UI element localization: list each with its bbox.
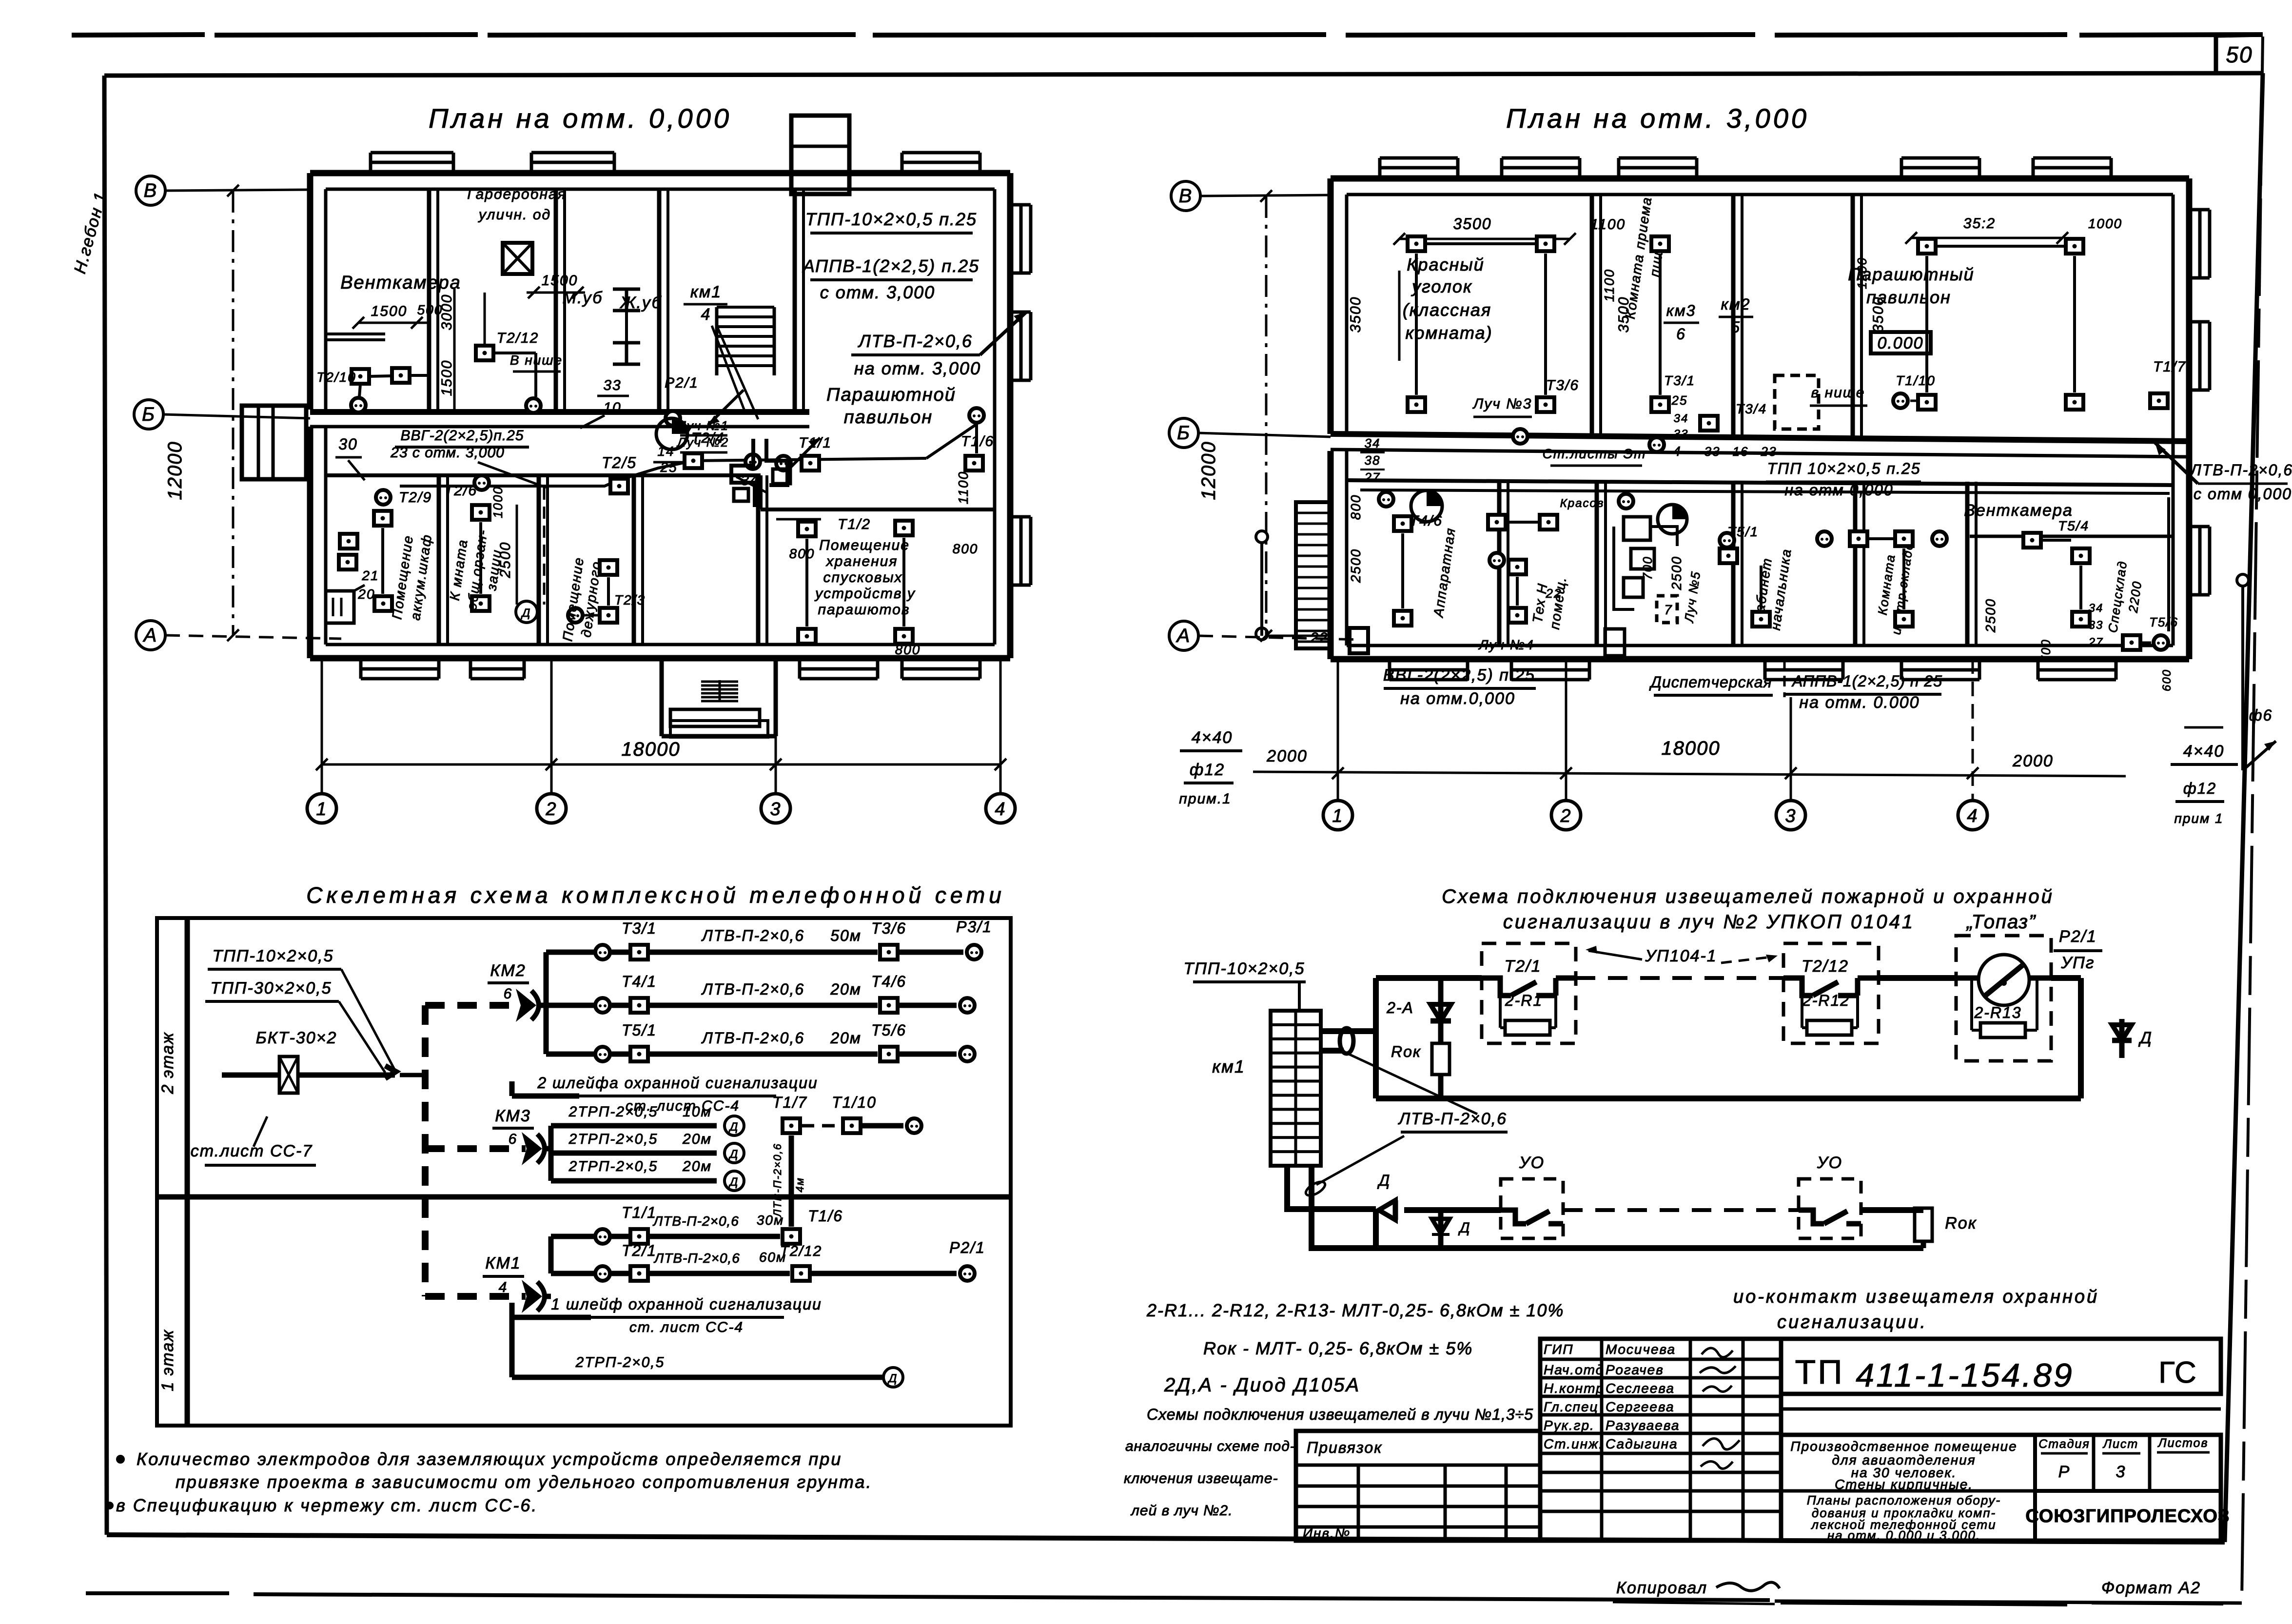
svg-text:38: 38 — [1365, 453, 1381, 468]
svg-text:1100: 1100 — [1590, 216, 1626, 233]
svg-text:хранения: хранения — [825, 553, 898, 569]
svg-text:12000: 12000 — [164, 441, 186, 500]
svg-text:Рогачев: Рогачев — [1606, 1362, 1664, 1377]
svg-text:2 этаж: 2 этаж — [158, 1032, 177, 1094]
svg-text:Схема подключения извещателей: Схема подключения извещателей пожарной и… — [1442, 886, 2054, 907]
svg-text:Красов: Красов — [1560, 497, 1605, 510]
svg-text:Т1/2: Т1/2 — [838, 516, 871, 532]
svg-text:2-R12: 2-R12 — [1802, 992, 1850, 1009]
svg-text:27: 27 — [1364, 470, 1381, 485]
svg-text:План на отм. 0,000: План на отм. 0,000 — [429, 103, 732, 134]
svg-text:Т5/1: Т5/1 — [622, 1021, 657, 1039]
svg-text:сигнализации.: сигнализации. — [1777, 1312, 1927, 1332]
svg-text:4×40: 4×40 — [2183, 742, 2225, 761]
svg-text:1200: 1200 — [1855, 257, 1869, 289]
svg-text:Т2/9: Т2/9 — [399, 489, 432, 506]
svg-text:50: 50 — [2226, 42, 2253, 67]
svg-text:2ТРП-2×0,5: 2ТРП-2×0,5 — [568, 1131, 658, 1147]
svg-text:А: А — [143, 625, 158, 646]
svg-text:Сеслеева: Сеслеева — [1606, 1381, 1675, 1396]
svg-text:Парашютной: Парашютной — [826, 385, 956, 405]
svg-text:Т1/1: Т1/1 — [622, 1204, 657, 1221]
svg-text:ТПП-10×2×0,5 п.25: ТПП-10×2×0,5 п.25 — [805, 209, 977, 229]
svg-text:Д: Д — [728, 1175, 739, 1189]
svg-text:аналогичны схеме под-: аналогичны схеме под- — [1125, 1438, 1295, 1454]
svg-text:22: 22 — [1546, 586, 1562, 601]
svg-text:Ст.инж.: Ст.инж. — [1544, 1436, 1604, 1451]
svg-text:Т2/12: Т2/12 — [497, 330, 539, 346]
svg-text:КМ1: КМ1 — [485, 1254, 521, 1272]
svg-text:Д: Д — [728, 1120, 739, 1134]
svg-text:Т2/12: Т2/12 — [780, 1243, 823, 1259]
svg-text:Листов: Листов — [2157, 1436, 2208, 1450]
svg-text:18000: 18000 — [1661, 738, 1720, 759]
svg-text:Д: Д — [521, 607, 531, 620]
svg-text:14: 14 — [657, 444, 674, 459]
svg-text:27: 27 — [2088, 636, 2104, 649]
svg-text:2000: 2000 — [2012, 752, 2054, 770]
svg-text:3500: 3500 — [1453, 215, 1491, 233]
svg-text:Б: Б — [142, 404, 156, 425]
svg-text:3500: 3500 — [1870, 296, 1886, 333]
svg-text:800: 800 — [895, 642, 921, 657]
svg-text:7: 7 — [1664, 602, 1673, 617]
svg-text:2ТРП-2×0,5: 2ТРП-2×0,5 — [575, 1354, 665, 1370]
svg-text:Т1/6: Т1/6 — [808, 1207, 843, 1225]
svg-text:ТПП-30×2×0,5: ТПП-30×2×0,5 — [210, 979, 332, 998]
svg-text:ВВГ-2(2×2,5)п.25: ВВГ-2(2×2,5)п.25 — [400, 428, 524, 444]
svg-text:3: 3 — [1785, 806, 1796, 826]
svg-text:Н.контр: Н.контр — [1544, 1381, 1605, 1396]
svg-text:Диспетчерская: Диспетчерская — [1649, 673, 1772, 691]
svg-text:Т2/12: Т2/12 — [1802, 957, 1849, 976]
svg-text:1500: 1500 — [439, 360, 455, 396]
svg-text:20м: 20м — [682, 1131, 712, 1147]
svg-text:3: 3 — [2116, 1463, 2126, 1481]
svg-text:Разуваева: Разуваева — [1606, 1418, 1680, 1433]
svg-text:4: 4 — [995, 799, 1006, 820]
svg-text:Т2/4: Т2/4 — [691, 430, 725, 446]
svg-text:2ТРП-2×0,5: 2ТРП-2×0,5 — [568, 1104, 658, 1120]
svg-text:АППВ-1(2×2,5) п 25: АППВ-1(2×2,5) п 25 — [1791, 672, 1942, 690]
svg-text:КМ3: КМ3 — [495, 1107, 530, 1125]
svg-text:ЛТВ-П-2×0,6: ЛТВ-П-2×0,6 — [771, 1143, 784, 1217]
svg-text:3500: 3500 — [1348, 296, 1364, 333]
svg-text:ключения извещате-: ключения извещате- — [1124, 1470, 1278, 1487]
svg-text:33: 33 — [1704, 444, 1721, 459]
svg-text:30: 30 — [338, 435, 358, 453]
svg-text:на отм. 3,000: на отм. 3,000 — [854, 358, 981, 378]
svg-text:23: 23 — [1761, 444, 1777, 459]
svg-text:4: 4 — [1673, 444, 1682, 459]
svg-text:34: 34 — [1365, 436, 1381, 450]
svg-text:на отм 0,000: на отм 0,000 — [1784, 481, 1893, 499]
svg-text:ТП: ТП — [1795, 1353, 1844, 1391]
svg-text:Т1/10: Т1/10 — [1896, 373, 1936, 388]
svg-text:ЛТВ-П-2×0,6: ЛТВ-П-2×0,6 — [2190, 461, 2292, 479]
svg-text:33: 33 — [1674, 428, 1689, 441]
svg-text:ВВГ-2(2×2,5) п.25: ВВГ-2(2×2,5) п.25 — [1383, 666, 1535, 685]
svg-text:прим.1: прим.1 — [1179, 791, 1231, 807]
svg-text:км1: км1 — [690, 283, 722, 301]
svg-text:Ст.листы Эт: Ст.листы Эт — [1543, 446, 1646, 461]
svg-text:УПг: УПг — [2060, 954, 2095, 972]
svg-text:1: 1 — [316, 799, 327, 820]
svg-text:2500: 2500 — [1348, 548, 1363, 583]
svg-text:50м: 50м — [830, 927, 862, 944]
svg-text:2Д,А - Диод Д105А: 2Д,А - Диод Д105А — [1164, 1374, 1360, 1396]
svg-text:Р3/1: Р3/1 — [956, 918, 992, 936]
svg-text:2ТРП-2×0,5: 2ТРП-2×0,5 — [568, 1158, 658, 1174]
svg-text:Луч №3: Луч №3 — [1472, 396, 1532, 412]
svg-text:СОЮЗГИПРОЛЕСХОЗ: СОЮЗГИПРОЛЕСХОЗ — [2025, 1506, 2230, 1526]
svg-text:35:2: 35:2 — [1963, 215, 1996, 232]
svg-text:на отм. 0,000 и 3,000.: на отм. 0,000 и 3,000. — [1827, 1528, 1980, 1543]
svg-text:Д: Д — [1377, 1172, 1391, 1189]
svg-text:2500: 2500 — [1983, 598, 1998, 633]
svg-text:ф6: ф6 — [2249, 706, 2273, 724]
svg-text:0.000: 0.000 — [1877, 334, 1923, 352]
svg-text:М.уб: М.уб — [563, 289, 603, 307]
svg-text:ЛТВ-П-2×0,6: ЛТВ-П-2×0,6 — [653, 1251, 740, 1266]
svg-text:Рук.гр.: Рук.гр. — [1544, 1418, 1595, 1433]
svg-text:20м: 20м — [682, 1158, 712, 1174]
svg-text:23 с отм. 3,000: 23 с отм. 3,000 — [390, 445, 505, 461]
svg-text:ЛТВ-П-2×0,6: ЛТВ-П-2×0,6 — [701, 1029, 804, 1047]
svg-text:УО: УО — [1817, 1154, 1842, 1172]
svg-text:В: В — [1179, 185, 1193, 207]
svg-text:33: 33 — [603, 377, 621, 393]
svg-text:Гл.спец: Гл.спец — [1544, 1399, 1599, 1414]
svg-text:Копировал: Копировал — [1616, 1579, 1707, 1597]
svg-text:Т1/7: Т1/7 — [2153, 359, 2186, 375]
svg-text:в Спецификацию к чертежу ст: в Спецификацию к чертежу ст. лист СС-6. — [116, 1495, 538, 1515]
svg-text:А: А — [1176, 625, 1191, 646]
svg-text:Количество электродов для з: Количество электродов для заземляющих ус… — [137, 1449, 842, 1469]
svg-text:Т5/6: Т5/6 — [2149, 615, 2178, 629]
svg-text:с отм 0,000: с отм 0,000 — [2194, 485, 2292, 503]
svg-text:3000: 3000 — [439, 294, 455, 331]
svg-text:„Топаз”: „Топаз” — [1966, 911, 2037, 933]
svg-text:2500: 2500 — [1669, 556, 1684, 590]
svg-text:21: 21 — [361, 568, 379, 583]
svg-text:1000: 1000 — [2088, 216, 2122, 231]
svg-text:3: 3 — [770, 799, 781, 820]
svg-text:уголок: уголок — [1410, 276, 1472, 296]
svg-text:привязке проекта в зависимос: привязке проекта в зависимости от удельн… — [176, 1472, 872, 1492]
svg-text:парашютов: парашютов — [818, 602, 910, 618]
svg-text:Инв.№: Инв.№ — [1303, 1526, 1351, 1541]
svg-text:Rок: Rок — [1945, 1214, 1977, 1233]
svg-text:30м: 30м — [757, 1213, 784, 1228]
svg-text:Нач.отд: Нач.отд — [1544, 1362, 1604, 1377]
svg-text:Б: Б — [1177, 422, 1191, 444]
svg-text:ЛТВ-П-2×0,6: ЛТВ-П-2×0,6 — [701, 980, 804, 998]
svg-text:км3: км3 — [1666, 302, 1696, 319]
svg-text:лей в луч №2.: лей в луч №2. — [1130, 1503, 1233, 1519]
svg-text:800: 800 — [789, 546, 815, 561]
svg-text:Т3/4: Т3/4 — [1736, 401, 1767, 416]
svg-text:на отм.0,000: на отм.0,000 — [1400, 689, 1515, 708]
svg-text:1 шлейф охранной сигнализации: 1 шлейф охранной сигнализации — [551, 1295, 822, 1313]
svg-text:2-R1: 2-R1 — [1505, 992, 1543, 1009]
svg-text:Стадия: Стадия — [2038, 1437, 2090, 1451]
svg-text:Мосичева: Мосичева — [1606, 1342, 1676, 1357]
svg-text:Садыгина: Садыгина — [1606, 1436, 1678, 1451]
svg-text:уличн. од: уличн. од — [478, 207, 551, 223]
svg-text:Производственное помещение: Производственное помещение — [1790, 1439, 2017, 1454]
svg-text:Помещение: Помещение — [819, 537, 910, 553]
svg-text:2-А: 2-А — [1386, 999, 1414, 1017]
svg-text:км2: км2 — [1721, 295, 1751, 313]
svg-text:КМ2: КМ2 — [490, 961, 526, 980]
svg-text:3500: 3500 — [1616, 296, 1632, 333]
svg-text:1500: 1500 — [371, 303, 408, 319]
svg-text:4: 4 — [499, 1279, 508, 1295]
svg-text:павильон: павильон — [844, 407, 933, 428]
svg-text:Р2/1: Р2/1 — [665, 375, 699, 391]
svg-text:спусковых: спусковых — [823, 569, 902, 586]
svg-text:ГС: ГС — [2158, 1356, 2197, 1389]
svg-text:на отм. 0.000: на отм. 0.000 — [1799, 693, 1920, 712]
svg-text:2 шлейфа охранной сигнализации: 2 шлейфа охранной сигнализации — [537, 1074, 818, 1092]
svg-text:прим 1: прим 1 — [2174, 811, 2223, 826]
svg-text:6: 6 — [1676, 325, 1686, 343]
svg-text:2-R13: 2-R13 — [1974, 1004, 2021, 1021]
svg-text:4м: 4м — [794, 1177, 806, 1192]
svg-text:Ж.уб: Ж.уб — [619, 293, 662, 312]
svg-text:ст. лист СС-4: ст. лист СС-4 — [629, 1319, 744, 1335]
svg-text:2: 2 — [1560, 806, 1571, 826]
svg-text:1000: 1000 — [490, 486, 505, 518]
svg-text:Скелетная схема комплексной: Скелетная схема комплексной телефонной с… — [306, 882, 1005, 908]
svg-text:10м: 10м — [683, 1104, 712, 1120]
svg-text:Венткамера: Венткамера — [340, 273, 461, 293]
svg-text:1: 1 — [1332, 806, 1343, 826]
svg-text:сигнализации в луч №2 УПКОП 0: сигнализации в луч №2 УПКОП 01041 — [1503, 911, 1915, 933]
svg-text:22: 22 — [1310, 630, 1328, 646]
svg-text:5: 5 — [1731, 318, 1741, 336]
svg-text:800: 800 — [1348, 494, 1363, 520]
svg-text:Р2/1: Р2/1 — [2059, 927, 2097, 946]
svg-text:34: 34 — [1674, 412, 1689, 425]
svg-text:АППВ-1(2×2,5) п.25: АППВ-1(2×2,5) п.25 — [802, 256, 979, 276]
svg-text:4×40: 4×40 — [1192, 728, 1233, 747]
svg-text:Д: Д — [2138, 1029, 2153, 1047]
svg-text:В: В — [144, 180, 158, 201]
svg-text:1 этаж: 1 этаж — [158, 1329, 177, 1391]
svg-text:Т3/6: Т3/6 — [871, 920, 906, 937]
svg-text:км1: км1 — [1212, 1057, 1245, 1076]
svg-text:Т2/10: Т2/10 — [316, 370, 356, 385]
svg-text:6: 6 — [504, 986, 513, 1002]
svg-text:Т2/1: Т2/1 — [622, 1242, 657, 1259]
svg-text:18000: 18000 — [621, 739, 680, 760]
svg-text:ЛТВ-П-2×0,6: ЛТВ-П-2×0,6 — [701, 927, 804, 944]
svg-text:Сергеева: Сергеева — [1606, 1399, 1675, 1414]
svg-text:Т1/10: Т1/10 — [832, 1094, 877, 1111]
svg-text:Гардеробная: Гардеробная — [467, 186, 566, 202]
svg-text:устройств у: устройств у — [814, 586, 916, 602]
svg-text:700: 700 — [2038, 639, 2053, 663]
svg-text:1500: 1500 — [542, 273, 578, 289]
svg-text:Луч №4: Луч №4 — [1478, 637, 1534, 652]
svg-text:Д: Д — [887, 1372, 898, 1385]
svg-text:Т3/1: Т3/1 — [622, 920, 657, 937]
svg-text:Схемы подключения извещателе: Схемы подключения извещателей в лучи №1,… — [1147, 1406, 1533, 1423]
svg-text:ст.лист СС-7: ст.лист СС-7 — [191, 1142, 313, 1160]
svg-text:20м: 20м — [830, 980, 862, 998]
svg-text:Т2/6: Т2/6 — [444, 483, 477, 499]
svg-text:комната): комната) — [1405, 323, 1492, 343]
svg-text:20м: 20м — [830, 1029, 862, 1047]
svg-text:Т2/5: Т2/5 — [602, 454, 637, 471]
svg-text:16: 16 — [1733, 444, 1749, 459]
svg-text:Т3/6: Т3/6 — [1546, 377, 1579, 393]
svg-text:1100: 1100 — [956, 471, 971, 504]
svg-text:Привязок: Привязок — [1307, 1439, 1382, 1456]
svg-text:600: 600 — [2160, 669, 2174, 691]
svg-text:6: 6 — [509, 1131, 518, 1147]
svg-text:ТПП-10×2×0,5: ТПП-10×2×0,5 — [1183, 959, 1305, 978]
svg-text:Д: Д — [728, 1148, 739, 1161]
svg-text:4: 4 — [1967, 806, 1978, 826]
svg-text:ф12: ф12 — [2183, 780, 2216, 797]
svg-text:БКТ-30×2: БКТ-30×2 — [256, 1029, 337, 1047]
svg-text:Т3/1: Т3/1 — [1664, 373, 1695, 388]
svg-text:Т2/1: Т2/1 — [1504, 957, 1541, 976]
svg-text:10: 10 — [603, 400, 621, 416]
svg-text:ЛТВ-П-2×0,6: ЛТВ-П-2×0,6 — [652, 1213, 739, 1229]
svg-text:Венткамера: Венткамера — [1964, 501, 2073, 520]
svg-text:Р: Р — [2058, 1463, 2071, 1481]
svg-text:ГИП: ГИП — [1544, 1342, 1574, 1357]
svg-text:411-1-154.89: 411-1-154.89 — [1856, 1357, 2074, 1394]
svg-text:2: 2 — [545, 799, 557, 820]
svg-text:25: 25 — [1671, 393, 1688, 408]
svg-text:Т4/6: Т4/6 — [871, 973, 906, 990]
svg-text:Красный: Красный — [1407, 254, 1485, 274]
svg-text:2000: 2000 — [1266, 747, 1308, 765]
svg-text:Rок: Rок — [1391, 1043, 1421, 1060]
svg-text:Т2/3: Т2/3 — [614, 592, 646, 607]
svg-text:1100: 1100 — [1602, 269, 1617, 302]
svg-text:Т4/1: Т4/1 — [622, 973, 657, 990]
svg-text:УП104-1: УП104-1 — [1645, 947, 1717, 965]
svg-text:Формат А2: Формат А2 — [2101, 1579, 2201, 1597]
svg-text:ТПП-10×2×0,5: ТПП-10×2×0,5 — [212, 947, 333, 965]
svg-text:ф12: ф12 — [1190, 761, 1225, 779]
svg-text:Д: Д — [1458, 1220, 1470, 1236]
svg-text:Р2/1: Р2/1 — [949, 1239, 985, 1256]
svg-text:ио-контакт извещателя охранн: ио-контакт извещателя охранной — [1733, 1287, 2099, 1307]
svg-text:800: 800 — [953, 541, 979, 556]
svg-text:Rок - МЛТ- 0,25- 6,8кОм ± 5%: Rок - МЛТ- 0,25- 6,8кОм ± 5% — [1203, 1338, 1473, 1358]
svg-text:Т5/6: Т5/6 — [871, 1021, 906, 1039]
svg-text:УО: УО — [1519, 1154, 1545, 1172]
svg-text:ЛТВ-П-2×0,6: ЛТВ-П-2×0,6 — [1398, 1110, 1507, 1128]
svg-text:2-R1... 2-R12, 2-R13- МЛТ-0,25: 2-R1... 2-R12, 2-R13- МЛТ-0,25- 6,8кОм ±… — [1146, 1300, 1564, 1320]
svg-text:Лист: Лист — [2102, 1437, 2138, 1451]
svg-text:4: 4 — [701, 305, 711, 324]
svg-text:ТПП 10×2×0,5 п.25: ТПП 10×2×0,5 п.25 — [1767, 460, 1920, 477]
svg-text:План на отм. 3,000: План на отм. 3,000 — [1506, 103, 1809, 134]
svg-text:В нише: В нише — [510, 352, 563, 368]
svg-text:Т1/7: Т1/7 — [772, 1094, 807, 1111]
svg-text:12000: 12000 — [1198, 441, 1219, 500]
svg-text:Т5/4: Т5/4 — [2058, 518, 2089, 533]
svg-text:ЛТВ-П-2×0,6: ЛТВ-П-2×0,6 — [858, 331, 973, 351]
svg-text:с отм. 3,000: с отм. 3,000 — [820, 282, 935, 302]
